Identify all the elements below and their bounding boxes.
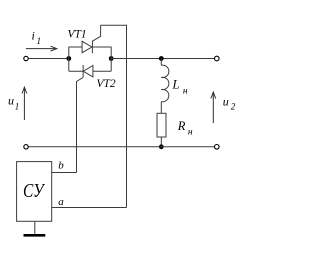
wire left node vertical [68, 47, 70, 71]
wire bottom rail [28, 146, 214, 148]
label i1 [32, 29, 42, 47]
ground [24, 234, 46, 237]
thyristor VT2 [77, 65, 93, 173]
arrow i1 [26, 46, 57, 51]
svg-text:u: u [223, 95, 229, 109]
svg-text:a: a [58, 196, 64, 208]
wire right node vertical [110, 47, 112, 71]
svg-text:VT2: VT2 [97, 78, 116, 90]
wire b [52, 172, 77, 174]
svg-text:н: н [183, 87, 188, 97]
label Rn [177, 119, 193, 138]
terminal input bottom-left [24, 145, 28, 149]
wire coil to resistor [160, 102, 162, 114]
node B (right thyristor node) [109, 56, 114, 61]
label u2 [223, 95, 236, 112]
control unit CY box [17, 162, 52, 222]
wire resistor lead bottom [160, 137, 162, 147]
wire top rail left [28, 58, 68, 60]
svg-text:i: i [32, 29, 35, 43]
svg-text:1: 1 [15, 102, 19, 112]
node C (inductor top) [159, 56, 164, 61]
svg-text:н: н [188, 128, 193, 138]
label u1 [8, 94, 19, 112]
arrow u2 [211, 92, 216, 123]
svg-text:u: u [8, 94, 14, 108]
terminal output bottom-right [215, 145, 220, 150]
svg-text:R: R [177, 119, 186, 133]
wire lower branch [69, 70, 111, 72]
terminal output top-right [215, 56, 220, 61]
svg-text:2: 2 [231, 102, 236, 112]
resistor Rn [157, 113, 166, 137]
inductor Ln [161, 65, 169, 102]
svg-text:b: b [58, 159, 64, 171]
wire gate top run [101, 25, 127, 207]
node D (resistor bottom) [159, 144, 164, 149]
wire upper branch [69, 46, 111, 48]
terminal input top-left [24, 56, 28, 60]
ground stub [34, 221, 36, 234]
wire a [52, 207, 127, 209]
svg-text:L: L [172, 78, 180, 92]
wire top rail right [111, 58, 214, 60]
arrow u1 [22, 87, 27, 120]
label Ln [172, 78, 188, 97]
svg-text:1: 1 [37, 36, 42, 46]
node A (left thyristor node) [66, 56, 71, 61]
wire inductor lead top [160, 59, 162, 66]
svg-text:СУ: СУ [23, 180, 45, 202]
svg-text:VT1: VT1 [68, 29, 87, 41]
thyristor VT1 [82, 25, 101, 53]
